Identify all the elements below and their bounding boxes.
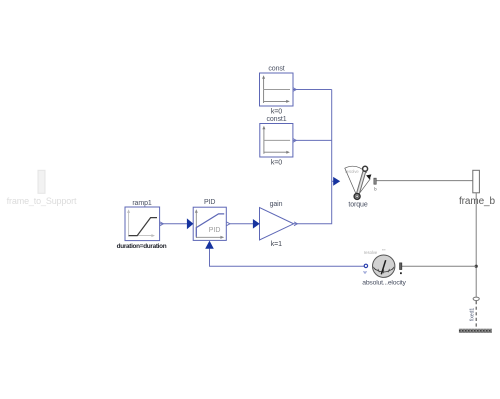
PID output connector y: [227, 222, 230, 226]
top eye circle: [363, 166, 368, 171]
wire sensor w to PID u_m (feedback): [210, 249, 365, 267]
wire PID to gain: [230, 223, 254, 225]
wire node to torque input: [332, 180, 335, 182]
frame_b connector of torque: [374, 178, 376, 184]
block PID: [187, 199, 230, 249]
svg-text:gain: gain: [270, 201, 283, 208]
connector frame_b: [459, 170, 496, 207]
sensor absolut...elocity (absolute velocity): [362, 250, 406, 286]
wire const1 to node: [293, 139, 332, 141]
gain input connector: [253, 219, 260, 229]
component torque (world torque actuator): [345, 166, 377, 208]
ghost connector frame_to_Support: [7, 170, 77, 206]
svg-text:duration=duration: duration=duration: [117, 243, 167, 250]
block const: [260, 66, 297, 116]
svg-text:const: const: [268, 66, 284, 73]
component fixed (ground): [459, 297, 492, 333]
PID input connector u_s: [187, 218, 194, 229]
wire ramp1 to PID: [160, 223, 187, 225]
svg-text:k=1: k=1: [271, 241, 282, 248]
dashed rod: [475, 301, 477, 329]
svg-text:fixed1: fixed1: [470, 308, 476, 322]
frame_a connector of sensor: [400, 263, 402, 270]
svg-text:frame_b: frame_b: [459, 196, 496, 207]
svg-text:frame_to_Support: frame_to_Support: [7, 196, 77, 206]
junction node: [475, 265, 478, 268]
wire (gray) sensor frame_a to junction: [402, 265, 476, 267]
wire (gray) frame_b down to fixed: [475, 193, 477, 297]
block ramp1: [117, 200, 167, 250]
svg-text:absolut...elocity: absolut...elocity: [362, 279, 406, 286]
bottom pivot circle: [354, 193, 360, 199]
needle: [381, 260, 385, 274]
wire (gray) torque frame_b to frame_b connector: [376, 180, 472, 182]
svg-text:torque: torque: [348, 202, 367, 209]
output connector w: [364, 264, 367, 267]
svg-text:k=0: k=0: [271, 159, 282, 166]
svg-text:PID: PID: [209, 227, 221, 234]
lever arm: [357, 169, 365, 197]
svg-text:const1: const1: [266, 116, 286, 123]
svg-text:k=0: k=0: [271, 109, 282, 116]
ground hatch bar: [459, 329, 492, 333]
torque arrowhead: [366, 174, 371, 179]
wire gain to node (vertical bus): [294, 90, 332, 224]
torque input connector (RealInput): [333, 177, 340, 186]
gauge arc and ticks: [374, 268, 394, 272]
block const1: [260, 116, 297, 166]
wire const to node: [293, 89, 332, 91]
svg-text:PID: PID: [204, 199, 215, 206]
svg-text:resolve: resolve: [364, 250, 378, 255]
svg-text:ramp1: ramp1: [132, 200, 152, 207]
block gain: [253, 201, 298, 248]
fan sector: [345, 166, 367, 196]
PID input connector u_m (bottom): [205, 241, 214, 249]
